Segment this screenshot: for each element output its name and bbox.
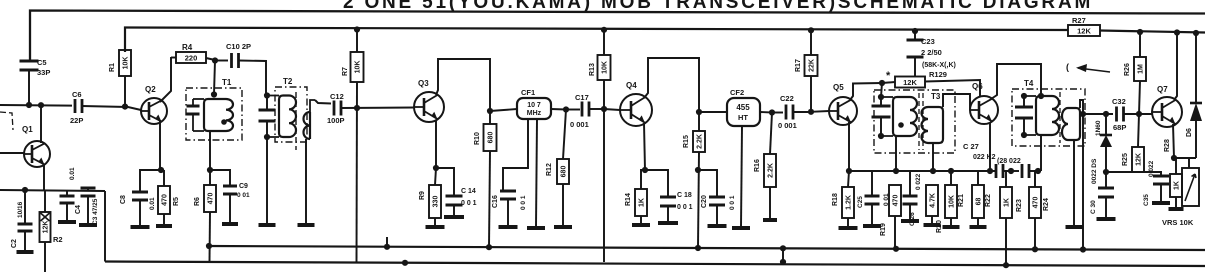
svg-text:Q4: Q4 — [626, 81, 637, 90]
svg-text:T1: T1 — [222, 78, 232, 87]
wire Q5 collector run — [850, 83, 882, 100]
wire C28 right to T4 bottom junction — [1029, 170, 1041, 172]
wire CF2 ground pin — [741, 126, 742, 227]
resistor R12 680 — [563, 110, 566, 160]
diode D5 1N60 — [1105, 114, 1107, 134]
T4 secondary winding — [1062, 108, 1080, 140]
svg-text:C2: C2 — [11, 239, 18, 248]
wire T3 secondary top to Q6 base — [943, 94, 970, 110]
T2 secondary winding — [309, 112, 311, 139]
capacitor C12 100P — [333, 101, 336, 116]
svg-text:0 022: 0 022 — [1148, 160, 1155, 177]
node C5/main line junction — [26, 102, 32, 108]
node T2 bottom junction — [264, 134, 270, 140]
resistor R26 1M — [1139, 32, 1141, 57]
svg-text:455: 455 — [736, 103, 750, 112]
T2 core dashes — [295, 92, 297, 150]
capacitor C22 0.001 — [772, 112, 783, 114]
svg-text:T3: T3 — [931, 92, 941, 101]
svg-text:68: 68 — [976, 198, 983, 206]
resistor R1 10K — [119, 50, 131, 76]
svg-text:470: 470 — [162, 194, 169, 206]
node T3 top junction — [879, 80, 885, 86]
wire C6 to Q2 base — [82, 106, 141, 110]
wire T4 cap link — [1023, 96, 1025, 107]
node R7 junction on signal line — [354, 105, 360, 111]
svg-text:10 7: 10 7 — [527, 102, 541, 109]
svg-text:0 0 1: 0 0 1 — [520, 195, 527, 210]
node T3 cap top — [878, 94, 884, 100]
node C2 junction — [22, 187, 28, 193]
wire Q4 emitter down — [644, 123, 645, 170]
transistor Q3 — [414, 92, 444, 122]
svg-text:C10 2P: C10 2P — [226, 42, 251, 51]
node R1 bottom junction — [122, 104, 128, 110]
node rail1 x896 — [893, 246, 899, 252]
node T4 top junction — [1038, 93, 1044, 99]
potentiometer VR5 10K — [1188, 158, 1190, 168]
resistor R27 12K on rail — [1068, 25, 1100, 36]
svg-text:C22: C22 — [780, 94, 794, 103]
wire CF1 output lead — [551, 108, 566, 111]
wire Q2 collector to R4 — [160, 57, 171, 102]
ceramic filter CF2 455 — [727, 98, 760, 126]
resistor R6 470 — [209, 170, 211, 185]
resistor R129 12K — [895, 77, 925, 88]
svg-text:R20: R20 — [936, 220, 943, 233]
wire down to lower rail at x105 — [104, 191, 106, 262]
svg-text:Q2: Q2 — [145, 85, 156, 94]
svg-text:R24: R24 — [1043, 198, 1050, 211]
wire T3 left link — [881, 83, 882, 106]
node detector junction — [1080, 111, 1086, 117]
svg-text:R129: R129 — [929, 70, 947, 79]
svg-text:4.7K: 4.7K — [930, 193, 937, 208]
svg-text:R10: R10 — [474, 132, 481, 145]
svg-text:0 0 1: 0 0 1 — [677, 204, 693, 211]
resistor R16 2.2K — [770, 113, 772, 155]
svg-text:1K: 1K — [639, 198, 646, 207]
svg-text:R21: R21 — [958, 194, 965, 207]
svg-text:22K: 22K — [809, 59, 816, 72]
svg-text:R26: R26 — [1124, 63, 1131, 76]
svg-text:R5: R5 — [173, 197, 180, 206]
resistor R24 470 — [1035, 171, 1038, 187]
svg-text:C16: C16 — [492, 195, 499, 208]
svg-text:R15: R15 — [683, 135, 690, 148]
wire C12 to Q3 base — [341, 107, 414, 110]
svg-text:Q5: Q5 — [833, 83, 844, 92]
capacitor C30 0.022 — [1105, 172, 1107, 188]
wire T4 secondary top lead to detector — [1080, 100, 1083, 247]
svg-text:220: 220 — [185, 54, 198, 63]
wire CF1 input lead — [490, 109, 517, 111]
node R7 top on rail — [354, 26, 360, 32]
node R17 top on rail — [808, 27, 814, 33]
svg-text:T4: T4 — [1024, 79, 1034, 88]
svg-text:10/16: 10/16 — [17, 201, 24, 218]
svg-text:T2: T2 — [283, 77, 293, 86]
node Q5 emitter junction — [846, 168, 852, 174]
svg-text:0 0 1: 0 0 1 — [461, 200, 477, 207]
node R17 junction on signal line — [808, 109, 814, 115]
svg-text:C23: C23 — [921, 37, 935, 46]
wire R25 bottom to D5 node — [1106, 171, 1138, 173]
node T4 cap top — [1021, 93, 1027, 99]
resistor R22 68 — [978, 171, 990, 185]
svg-text:Q3: Q3 — [418, 79, 429, 88]
svg-text:0.01: 0.01 — [69, 167, 76, 180]
svg-text:R18: R18 — [832, 193, 839, 206]
svg-text:12K: 12K — [903, 78, 917, 87]
transistor Q5 — [829, 97, 857, 125]
T3 secondary winding — [922, 107, 943, 143]
node CF2 input junction — [696, 109, 702, 115]
node Q2 emitter junction — [158, 167, 164, 173]
capacitor C8 0.01 — [140, 170, 161, 192]
T3 winding tap — [898, 122, 904, 128]
svg-text:C 14: C 14 — [461, 188, 476, 195]
resistor R17 22K — [810, 31, 812, 56]
node Q1 collector junction — [38, 102, 44, 108]
wire CF2 input lead — [699, 111, 727, 113]
svg-text:2.2K: 2.2K — [768, 163, 775, 178]
wire T2 secondary bottom lead — [305, 139, 307, 224]
svg-text:0.01: 0.01 — [149, 197, 156, 210]
wire Q3 collector run — [436, 59, 490, 111]
svg-text:C32: C32 — [1112, 97, 1126, 106]
wire R4 right lead to junction — [206, 58, 215, 60]
wire R24 lead to bottom rail — [1034, 218, 1036, 248]
node rail2 x1006 — [1003, 262, 1009, 268]
svg-text:HT: HT — [738, 113, 748, 122]
svg-text:Q7: Q7 — [1157, 85, 1168, 94]
svg-text:CF1: CF1 — [521, 88, 535, 97]
svg-text:Q1: Q1 — [22, 125, 33, 134]
svg-text:0022 DS: 0022 DS — [1091, 158, 1098, 184]
node D6 top on rail — [1193, 30, 1199, 36]
wire Q2 emitter down — [159, 120, 161, 170]
svg-text:12K: 12K — [43, 221, 50, 234]
svg-text:R23: R23 — [1016, 199, 1023, 212]
wire T2 primary ground lead — [266, 137, 268, 224]
node T3 secondary bottom junction — [930, 168, 936, 174]
svg-text:R16: R16 — [754, 159, 761, 172]
svg-text:10K: 10K — [355, 61, 362, 74]
wire top supply rail — [30, 11, 1205, 63]
wire second supply rail right of R27 — [1100, 31, 1205, 33]
wire R23 lead to bottom rails — [1005, 218, 1007, 266]
svg-text:C17: C17 — [575, 93, 589, 102]
svg-text:C8: C8 — [120, 195, 127, 204]
wire Q6 emitter down — [989, 122, 991, 171]
svg-text:10K: 10K — [602, 61, 609, 74]
svg-text:R14: R14 — [625, 193, 632, 206]
capacitor inside T4 — [1015, 106, 1033, 109]
node T2 top junction — [264, 92, 270, 98]
capacitor C20 0.01 — [698, 170, 717, 197]
node R4/C10/T1 junction — [212, 57, 218, 63]
node R13 junction on signal line — [601, 106, 607, 112]
wire Q7 collector to rail — [1174, 33, 1177, 101]
svg-text:68P: 68P — [1113, 123, 1126, 132]
node bus junction x951 — [948, 168, 954, 174]
node Q3 emitter junction — [433, 165, 439, 171]
svg-text:R25: R25 — [1122, 153, 1129, 166]
node rail1 x783 — [780, 245, 786, 251]
resistor R10 680 — [489, 111, 491, 124]
node C23 top on rail — [912, 28, 918, 34]
wire Q1 collector to main line — [40, 105, 42, 143]
svg-text:10K: 10K — [949, 195, 956, 208]
svg-text:CF2: CF2 — [730, 88, 744, 97]
svg-text:0 0 1: 0 0 1 — [729, 195, 736, 210]
node CF1 input junction — [487, 108, 493, 114]
wire T2 secondary to C12 — [315, 100, 331, 104]
wire emitter bus of Q1 — [0, 190, 105, 191]
capacitor C27 0.022 — [995, 164, 998, 178]
svg-text:12K: 12K — [1136, 153, 1143, 166]
resistor R18 1.2K — [848, 171, 849, 187]
svg-text:100P: 100P — [327, 116, 345, 125]
T2 primary winding — [279, 96, 296, 138]
svg-text:12K: 12K — [1077, 27, 1091, 36]
svg-text:Q6: Q6 — [972, 82, 983, 91]
resistor R28 1K — [1175, 158, 1177, 174]
wire CF2 output lead — [760, 111, 772, 114]
svg-text:22P: 22P — [70, 116, 83, 125]
node T1 bottom junction — [207, 167, 213, 173]
resistor R25 12K — [1138, 114, 1139, 147]
svg-text:0 001: 0 001 — [778, 121, 797, 130]
node T3 cap bottom — [878, 133, 884, 139]
wire R13 junction long lead to bottom rails — [603, 80, 605, 262]
T4 core dashes — [1059, 92, 1061, 143]
svg-text:(28 022: (28 022 — [997, 158, 1021, 165]
wire Q1 emitter down — [43, 164, 45, 190]
wire R6 lead to bottom rails — [209, 212, 212, 262]
node CF1 output junction — [563, 106, 569, 112]
resistor R5 470 — [163, 170, 165, 186]
wire T4 primary bottom lead — [1040, 135, 1042, 171]
wire emitter bus row — [849, 170, 996, 172]
svg-text:0 022: 0 022 — [915, 173, 922, 190]
wire T3 secondary bottom lead — [932, 143, 934, 171]
svg-text:R6: R6 — [194, 197, 201, 206]
wire CF1 ground pin center — [536, 119, 537, 227]
node R15 lower junction — [695, 167, 701, 173]
wire CF1 ground pin left — [503, 119, 528, 190]
node D5 bottom junction — [1103, 169, 1109, 175]
svg-text:R7: R7 — [342, 67, 349, 76]
svg-text:C6: C6 — [72, 90, 82, 99]
wire Q3 emitter down — [435, 120, 437, 168]
resistor R19 470 — [889, 185, 901, 216]
node rail1 x1083 — [1080, 246, 1086, 252]
resistor R4 220 — [176, 52, 206, 63]
node Q7 base junction — [1136, 111, 1142, 117]
svg-text:680: 680 — [561, 166, 568, 178]
svg-text:C4: C4 — [75, 205, 82, 214]
wire rail bridge x783 — [782, 248, 784, 262]
svg-text:0 01: 0 01 — [237, 192, 250, 199]
node T4 primary bottom junction — [1035, 168, 1041, 174]
resistor R15 2.2K — [698, 112, 700, 131]
resistor R2 — [44, 190, 46, 212]
T3 core dashes — [918, 93, 920, 150]
svg-text:33P: 33P — [37, 68, 50, 77]
node rail1 x698 — [695, 245, 701, 251]
svg-text:MHz: MHz — [527, 110, 542, 117]
svg-text:330: 330 — [433, 196, 440, 208]
svg-text:022 K2: 022 K2 — [973, 154, 996, 161]
svg-text:R17: R17 — [795, 59, 802, 72]
svg-text:1.2K: 1.2K — [846, 195, 853, 210]
wire Q5 emitter down — [848, 122, 850, 171]
capacitor inside T3 — [872, 105, 891, 108]
T1 winding tap — [221, 119, 227, 125]
resistor R9 330 — [435, 168, 436, 185]
wire R7 long lead to bottom rails — [356, 82, 359, 262]
transistor Q1 — [24, 141, 50, 167]
svg-text:R4: R4 — [182, 43, 193, 52]
wire Q4 collector run to CF2 — [644, 58, 699, 112]
node Q4 emitter junction — [642, 167, 648, 173]
capacitor C35 0.022 — [1138, 172, 1161, 176]
node between C27 C28 — [1008, 168, 1014, 174]
wire C27 to C28 — [1003, 170, 1019, 172]
svg-text:R28: R28 — [1164, 139, 1171, 152]
wire C32 to Q7 base — [1124, 113, 1152, 115]
wire second supply rail — [125, 28, 1068, 53]
wire R4 left lead — [171, 57, 176, 59]
capacitor C16 0.01 — [500, 190, 516, 193]
wire 12K left lead — [882, 82, 895, 83]
wire emitter to D6 node — [1174, 157, 1196, 159]
svg-text:C20: C20 — [701, 195, 708, 208]
wire Q4 base lead — [604, 109, 620, 110]
node R26 top on rail — [1137, 29, 1143, 35]
svg-text:C35: C35 — [1143, 194, 1150, 206]
wire Q6 collector run to T4 — [991, 64, 1041, 99]
capacitor C2 10/16 electrolytic — [24, 190, 26, 224]
svg-text:1K: 1K — [1004, 198, 1011, 207]
capacitor C4 0.01 — [66, 191, 68, 196]
node Q6 emitter junction — [987, 168, 993, 174]
node rail2 x783 — [780, 259, 786, 265]
svg-text:C 26: C 26 — [909, 212, 916, 226]
svg-text:R13: R13 — [589, 63, 596, 76]
capacitor inside T2 — [259, 109, 276, 112]
capacitor C14 0.01 — [436, 168, 454, 196]
diode D6 — [1195, 33, 1197, 102]
svg-text:1M: 1M — [1138, 64, 1145, 74]
transformer T2 — [275, 87, 307, 142]
dashed box fragment at left edge — [0, 112, 13, 130]
node rail2 x405 — [402, 260, 408, 266]
capacitor C9 0.01 — [210, 170, 230, 186]
node Q7 collector on rail — [1174, 29, 1180, 35]
wire T1 bottom lead — [209, 131, 211, 170]
transistor Q6 — [970, 96, 998, 124]
ceramic filter CF1 10.7MHz — [517, 98, 551, 119]
svg-text:C25: C25 — [857, 196, 864, 208]
resistor R13 10K — [603, 30, 605, 55]
svg-text:R22: R22 — [985, 194, 992, 207]
capacitor C5 33P — [20, 60, 39, 63]
wire T2 cap link bottom — [266, 121, 268, 137]
node T3 primary bottom junction — [893, 168, 899, 174]
svg-text:R1: R1 — [109, 63, 116, 72]
svg-text:10K: 10K — [123, 57, 130, 70]
node D5 junction — [1103, 111, 1109, 117]
node rail1 x387 — [384, 244, 390, 250]
wire main input line — [0, 104, 72, 107]
node T4 cap bottom — [1021, 132, 1027, 138]
capacitor C17 0.001 — [566, 109, 580, 111]
svg-text:D6: D6 — [1186, 128, 1193, 137]
svg-text:0 001: 0 001 — [570, 120, 589, 129]
svg-text:1K: 1K — [1174, 181, 1181, 190]
node CF2 output junction — [769, 109, 775, 115]
capacitor C10 2P — [215, 60, 228, 62]
svg-text:(58K-X(,K): (58K-X(,K) — [922, 62, 956, 69]
node Q7 emitter junction — [1171, 155, 1177, 161]
wire bottom rail 2 — [105, 262, 1205, 267]
svg-text:C3 47/25: C3 47/25 — [92, 198, 99, 225]
transformer T1 — [186, 88, 242, 140]
svg-text:R27: R27 — [1072, 16, 1086, 25]
wire Q1 base lead from left edge — [0, 152, 24, 154]
svg-text:R9: R9 — [419, 191, 426, 200]
wire T2 cap link top — [266, 95, 267, 110]
svg-text:470: 470 — [1033, 197, 1040, 209]
wire Q7 emitter down — [1173, 124, 1174, 158]
svg-text:680: 680 — [488, 132, 495, 144]
svg-text:C 27: C 27 — [963, 142, 979, 151]
svg-text:1N60: 1N60 — [1095, 120, 1102, 136]
wire Q5 base lead — [811, 110, 829, 113]
node rail1 x1035 — [1032, 246, 1038, 252]
wire 12K right lead to Q6 — [925, 80, 980, 96]
svg-text:(: ( — [1066, 62, 1069, 72]
wire T3 primary bottom lead — [895, 136, 897, 171]
capacitor C32 68P — [1115, 107, 1118, 122]
T4 primary winding — [1036, 96, 1059, 135]
capacitor C18 0.01 — [645, 170, 668, 197]
capacitor C26 0.022 — [909, 171, 911, 196]
wire bottom rail 1 — [208, 246, 1205, 250]
svg-text:VRS 10K: VRS 10K — [1162, 218, 1194, 227]
svg-text:C12: C12 — [330, 92, 344, 101]
node T1 top — [211, 91, 217, 97]
wire R10 lead to bottom rail — [489, 151, 490, 247]
transformer T4 — [1012, 89, 1085, 146]
wire detector node line — [1083, 113, 1113, 115]
svg-text:R19: R19 — [880, 223, 887, 236]
T1 primary winding — [204, 99, 233, 131]
resistor R21 10K — [950, 171, 952, 185]
T3 primary winding — [893, 97, 917, 136]
svg-text:2.2K: 2.2K — [697, 134, 704, 149]
wire T1 top lead — [214, 61, 215, 95]
svg-text:C5: C5 — [37, 58, 47, 67]
svg-text:R2: R2 — [53, 235, 63, 244]
resistor R7 10K — [356, 30, 358, 52]
svg-text:R12: R12 — [546, 163, 553, 176]
capacitor C3 47/25 — [87, 187, 89, 191]
wire T4 secondary bottom ground lead — [1073, 140, 1075, 226]
